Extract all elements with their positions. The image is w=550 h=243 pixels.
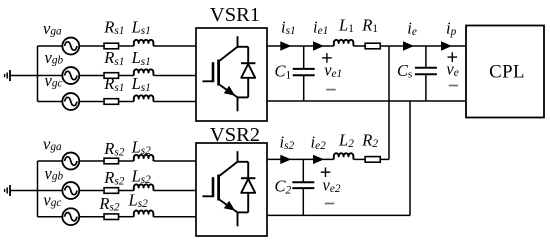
svg-text:VSR2: VSR2	[210, 124, 260, 146]
svg-text:VSR1: VSR1	[210, 4, 260, 26]
svg-text:CPL: CPL	[489, 61, 525, 82]
